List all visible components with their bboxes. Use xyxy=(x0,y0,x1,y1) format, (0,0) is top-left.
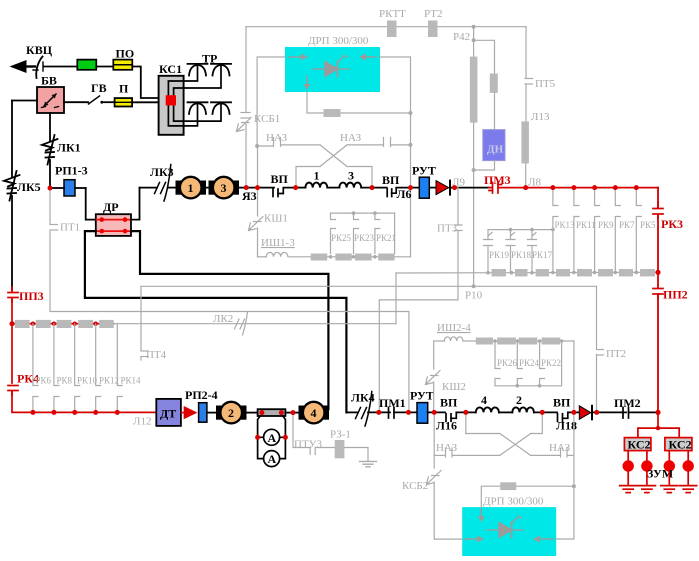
node PM1 right xyxy=(406,410,410,414)
switch LK3 xyxy=(155,165,171,202)
wire left vertical (black part) xyxy=(11,101,13,178)
resistor row blocks xyxy=(492,269,655,276)
svg-text:КС2: КС2 xyxy=(628,438,651,452)
inductor field 3 xyxy=(339,183,361,188)
svg-text:ЛК4: ЛК4 xyxy=(351,391,375,405)
svg-text:БВ: БВ xyxy=(41,74,57,88)
svg-text:А: А xyxy=(268,431,277,445)
contact PM1 xyxy=(389,408,418,419)
svg-text:ПМ2: ПМ2 xyxy=(614,396,641,410)
wire DR bottom winding left path to LK4 branch xyxy=(85,231,347,412)
wire green fuse to PO fuse xyxy=(96,66,113,68)
svg-text:ЛК5: ЛК5 xyxy=(17,180,41,194)
contact RK3 (red) xyxy=(653,202,663,218)
svg-text:ПП2: ПП2 xyxy=(663,288,688,302)
node PM1 left xyxy=(377,410,381,414)
arrow DRP2 left (in) xyxy=(464,536,484,543)
wire PT4 branch vertical xyxy=(140,286,142,350)
contact PM3 (red) xyxy=(489,183,502,194)
svg-text:РК22: РК22 xyxy=(541,358,561,368)
node NAZ right xyxy=(409,143,413,147)
svg-text:КШ1: КШ1 xyxy=(264,213,288,225)
wire DRP2 snubber xyxy=(481,486,574,507)
node R42 lower junction xyxy=(472,38,476,42)
switch GV xyxy=(89,96,104,104)
wire DRP1 right lead xyxy=(380,57,411,113)
wire ISh2-4 row left xyxy=(434,340,445,342)
relay coil RKTT xyxy=(387,21,397,38)
svg-text:Я3: Я3 xyxy=(242,189,257,203)
svg-text:Р42: Р42 xyxy=(453,31,470,43)
svg-text:РК21: РК21 xyxy=(376,233,396,243)
wire LK4 segment xyxy=(346,411,357,413)
node bottom line dots (red) xyxy=(31,410,120,414)
resistor ISh row blocks xyxy=(311,254,395,261)
SEC6 middle gray web xyxy=(50,146,626,412)
wire PT5 branch xyxy=(525,27,527,78)
wire PP3 down (red) xyxy=(11,298,13,383)
contact PP2 (red) xyxy=(653,289,663,299)
wire between field coils xyxy=(499,411,512,413)
shunt (ammeter) xyxy=(258,409,286,416)
node snubber2 junction xyxy=(572,484,576,488)
wire R42 branch vertical xyxy=(473,27,475,57)
contact RK24 xyxy=(517,341,522,386)
svg-text:НАЗ: НАЗ xyxy=(340,132,362,144)
wire RK25 bus xyxy=(331,212,395,214)
switch LK2 xyxy=(235,312,248,336)
svg-text:2: 2 xyxy=(516,393,522,407)
contact RK17 xyxy=(528,230,537,273)
svg-text:2: 2 xyxy=(228,406,234,420)
svg-text:КС1: КС1 xyxy=(159,62,182,76)
node RK13 tap xyxy=(551,185,555,189)
wire top gray bus xyxy=(246,26,526,28)
wire shunt to motor4 xyxy=(285,412,299,414)
ammeter A2 xyxy=(264,451,280,467)
resistor ladder R4 xyxy=(78,320,93,328)
contact NAZ lower-left xyxy=(434,448,500,457)
node Ya3 xyxy=(244,185,248,189)
svg-text:РК10: РК10 xyxy=(77,376,98,386)
switch LK4 xyxy=(356,392,372,427)
relay RP1-3 xyxy=(64,180,75,196)
svg-text:ЛК1: ЛК1 xyxy=(57,141,81,155)
contactor KC2 (left) xyxy=(624,438,651,452)
relay RUT (upper) xyxy=(419,177,429,198)
svg-text:1: 1 xyxy=(314,169,320,183)
svg-text:РК11: РК11 xyxy=(576,220,596,230)
svg-text:ПТ4: ПТ4 xyxy=(146,349,167,361)
wire riser row273 to LK2 row xyxy=(395,273,397,324)
svg-text:РП2-4: РП2-4 xyxy=(185,388,218,402)
svg-text:РК5: РК5 xyxy=(640,220,656,230)
wire between field coils xyxy=(327,187,339,189)
inductor ISh2-4 xyxy=(444,337,463,341)
wire RZ-1 to ground xyxy=(344,448,368,462)
svg-text:Л8: Л8 xyxy=(528,177,541,189)
node field right xyxy=(370,185,374,189)
wire DN bottom to junction xyxy=(474,161,495,170)
fuse PO xyxy=(113,60,132,70)
node RK7 tap xyxy=(613,185,617,189)
SEC1 top-left power xyxy=(10,43,232,135)
wire circle 4 to ground (red) xyxy=(687,472,689,486)
arrow DRP2 right (in) xyxy=(533,536,553,543)
svg-text:ИШ1-3: ИШ1-3 xyxy=(261,237,295,249)
wire L13 to main line xyxy=(525,163,527,187)
svg-text:РТ2: РТ2 xyxy=(424,8,442,20)
motor 3 xyxy=(209,177,240,199)
motor 4 xyxy=(299,402,330,424)
wire RUT to VP L16 xyxy=(428,411,445,413)
inductor field 4 xyxy=(476,407,499,412)
svg-text:ПТ5: ПТ5 xyxy=(535,78,556,90)
wire ISh2 row right drop xyxy=(573,341,575,486)
relay RUT (lower) xyxy=(417,403,428,424)
wire LK1 to RP1-3 node xyxy=(49,160,51,188)
node snubber junction xyxy=(409,111,413,115)
svg-text:ПП3: ПП3 xyxy=(19,289,44,303)
wire reverser lower-left to field xyxy=(296,167,320,188)
wire node to RP1-3 xyxy=(50,187,64,189)
svg-text:ПТ2: ПТ2 xyxy=(606,348,626,360)
resistor DRP1 snubber xyxy=(324,109,341,117)
svg-text:ДРП 300/300: ДРП 300/300 xyxy=(308,35,369,47)
contact NAZ upper-left xyxy=(257,138,320,147)
node ladder corner xyxy=(10,322,14,326)
wire reverser cross upper-left xyxy=(320,145,347,167)
wire KSB1 to NAZ bus xyxy=(245,124,247,188)
svg-text:Л12: Л12 xyxy=(133,416,151,428)
wire ISh2-4 row xyxy=(464,340,574,342)
svg-text:4: 4 xyxy=(311,406,317,420)
heater ZUM circle 4 xyxy=(683,460,694,471)
contact RK18 xyxy=(506,230,515,273)
node RK25 bus dots xyxy=(352,211,377,215)
fuse P xyxy=(115,98,133,106)
svg-text:ПМ1: ПМ1 xyxy=(379,396,406,410)
svg-text:П: П xyxy=(119,82,129,96)
diode (black) lower xyxy=(579,406,592,420)
breaker BV xyxy=(37,87,64,113)
heater ZUM circle 3 xyxy=(664,460,675,471)
svg-text:ВП: ВП xyxy=(553,396,571,410)
wire BV bottom to LK1 xyxy=(49,113,51,141)
svg-text:КС2: КС2 xyxy=(669,438,692,452)
overlay junction dots xyxy=(10,185,661,440)
wire reverser cross upper-right xyxy=(320,145,347,167)
svg-text:Л13: Л13 xyxy=(531,111,550,123)
wire field3 to VP L6 xyxy=(361,187,387,189)
wire KC2 right legs (red) xyxy=(669,451,688,461)
ammeter A1 xyxy=(264,429,280,445)
SEC9 KC2 zum xyxy=(620,412,697,492)
switch LK1 xyxy=(42,135,58,165)
node RK9 tap xyxy=(592,185,596,189)
svg-text:ПО: ПО xyxy=(116,47,135,61)
svg-text:ЛК3: ЛК3 xyxy=(150,165,174,179)
wire LK2 row xyxy=(114,323,396,325)
wire diode to PM2 xyxy=(592,411,626,413)
contact NAZ upper-right xyxy=(347,138,411,147)
diode (red) upper xyxy=(436,181,450,195)
node ISh2 row dots xyxy=(493,339,563,343)
svg-text:Л16: Л16 xyxy=(436,419,457,433)
wire reverser2 upper-right drop xyxy=(531,412,543,433)
svg-text:РК13: РК13 xyxy=(555,220,576,230)
node NAZ left xyxy=(255,144,259,148)
node diode left xyxy=(572,410,576,414)
wire LK4 to PM1 xyxy=(368,411,390,413)
wire below tall resistor xyxy=(473,123,475,287)
wire R10 row xyxy=(141,285,597,287)
svg-text:РК23: РК23 xyxy=(354,233,375,243)
switch KSB2 xyxy=(427,471,442,485)
svg-text:3: 3 xyxy=(348,169,354,183)
wire motor2 to shunt xyxy=(246,412,258,414)
arrow DT output (red) xyxy=(182,407,196,418)
thyristor DRP1 symbol xyxy=(313,56,349,77)
wire RK4 to bottom corner (red) xyxy=(12,391,156,412)
resistor ladder R5 xyxy=(99,320,114,328)
node junction 170 xyxy=(472,168,476,172)
wire red right vertical xyxy=(657,188,659,208)
switch KSh2 xyxy=(426,371,441,385)
pantograph TR4 (bottom-right) xyxy=(211,102,231,114)
contact PP3 (red) xyxy=(8,287,18,302)
winding DR bottom xyxy=(97,229,131,234)
heater ZUM circle 2 xyxy=(641,460,652,471)
svg-text:РУТ: РУТ xyxy=(410,389,434,403)
svg-text:РП1-3: РП1-3 xyxy=(55,164,88,178)
pantograph TR3 (bottom-left) xyxy=(188,102,208,114)
wire PT5 to L13 xyxy=(525,84,527,121)
svg-text:ЛК2: ЛК2 xyxy=(213,313,233,325)
wire DRP2 right lead xyxy=(556,486,574,539)
wire reverser2 upper-left drop xyxy=(466,412,500,433)
svg-text:КВЦ: КВЦ xyxy=(26,43,53,57)
node KC2 bracket xyxy=(656,426,660,430)
wire circle 1 to ground (red) xyxy=(627,472,629,486)
wire motor3 to VP xyxy=(239,187,275,189)
wire KSB1 branch xyxy=(245,27,247,112)
contact PT5 xyxy=(525,79,533,85)
contact RK23 xyxy=(354,213,359,253)
node RK11 tap xyxy=(572,185,576,189)
wire KSh2 branch xyxy=(433,341,435,369)
node RP1-3 junction xyxy=(48,186,52,190)
wire KC2 feeder (red) xyxy=(638,412,679,437)
svg-text:РК25: РК25 xyxy=(331,233,352,243)
wire RK3 to PP2 (red) xyxy=(657,215,659,288)
wire PTU3 branch xyxy=(293,413,335,448)
wire PT1 branch xyxy=(50,188,409,412)
wire circle 3 to ground (red) xyxy=(668,472,670,486)
node ladder dots xyxy=(31,322,98,326)
contact RK5 column xyxy=(636,188,641,273)
node RK19 bus dots xyxy=(509,228,555,232)
svg-text:ДН: ДН xyxy=(487,144,504,156)
inductor field 1 xyxy=(305,183,327,188)
node RK26 bus dots xyxy=(516,384,542,388)
svg-text:ПТ1: ПТ1 xyxy=(60,222,80,234)
wire KSh1 to ISh1-3 xyxy=(257,228,259,257)
svg-text:РУТ: РУТ xyxy=(412,164,436,178)
wire jog to DN branch xyxy=(474,40,495,73)
wire KSB2 branch xyxy=(433,412,435,468)
contact RK4 (red) xyxy=(8,386,18,396)
wire reverser2 cross A xyxy=(500,434,531,456)
node KVC arrow (to pantograph) xyxy=(10,60,36,73)
wire BV right to GV xyxy=(64,101,88,103)
transformer KS1 body xyxy=(159,76,184,135)
contact RK7 column xyxy=(615,188,620,273)
wire GV to P fuse xyxy=(103,101,115,103)
node field2 right xyxy=(540,410,544,414)
svg-text:РК9: РК9 xyxy=(598,220,614,230)
svg-text:НАЗ: НАЗ xyxy=(436,442,458,454)
svg-text:РЗ-1: РЗ-1 xyxy=(330,429,351,441)
resistor R42 (tall) xyxy=(470,57,478,123)
node L13 tap xyxy=(524,185,528,189)
wire RP1-3 to DR top winding xyxy=(86,188,96,220)
contact PTU3 xyxy=(310,448,315,455)
svg-text:РКТТ: РКТТ xyxy=(379,8,406,20)
svg-text:РК3: РК3 xyxy=(661,217,683,231)
winding DR top xyxy=(97,217,131,222)
svg-text:ДР: ДР xyxy=(103,200,119,214)
wire RK19 bus xyxy=(488,229,553,231)
voltmeter DN xyxy=(483,130,505,161)
node resistor row right xyxy=(656,270,661,275)
resistor L13 xyxy=(521,121,529,163)
wire PT2 branch xyxy=(596,286,598,412)
wire diode to PM3 xyxy=(450,187,489,189)
winding loop A (to TR top-left) xyxy=(168,65,197,95)
contact VP L6 xyxy=(387,188,419,197)
node R10 xyxy=(472,284,476,288)
svg-text:КСБ2: КСБ2 xyxy=(402,480,428,492)
wire RK26 bus xyxy=(495,341,562,386)
svg-text:РК26: РК26 xyxy=(497,358,518,368)
node row dots xyxy=(486,271,638,275)
winding loop C (to TR bottom-left) xyxy=(168,104,197,126)
wire RK25 bus right drop xyxy=(394,213,396,253)
pantograph TR2 (top-right) xyxy=(211,64,231,76)
svg-text:РК6: РК6 xyxy=(36,376,52,386)
heater ZUM circle 1 xyxy=(623,460,634,471)
svg-text:КШ2: КШ2 xyxy=(442,381,466,393)
contact NAZ lower-right xyxy=(531,448,574,457)
wire motor1 to motor3 xyxy=(206,187,210,189)
svg-text:РК17: РК17 xyxy=(532,250,553,260)
svg-text:ВП: ВП xyxy=(440,396,458,410)
svg-text:РК18: РК18 xyxy=(511,250,532,260)
resistor DN branch xyxy=(490,74,498,93)
wire to inductor 1 xyxy=(296,187,306,189)
svg-text:КСБ1: КСБ1 xyxy=(254,113,280,125)
svg-text:РК8: РК8 xyxy=(57,376,73,386)
reactor DR box xyxy=(96,214,131,236)
wire ISh row xyxy=(288,256,410,258)
wire to inductor xyxy=(258,256,267,258)
svg-text:РК19: РК19 xyxy=(489,250,510,260)
ground 2 (red) xyxy=(638,486,655,493)
wire circle 2 to ground (red) xyxy=(646,472,648,486)
SEC7 bottom motor line xyxy=(216,389,660,467)
svg-text:ВП: ВП xyxy=(382,173,400,187)
wire resistor to DN xyxy=(494,93,496,130)
wire main line to LK3 xyxy=(140,187,158,189)
contact RK19 xyxy=(484,230,493,273)
wire ammeter loop xyxy=(258,416,286,459)
winding loop B (to TR top-right) xyxy=(174,65,221,95)
contact RK14 column xyxy=(117,324,122,413)
contact PT2 xyxy=(597,350,604,356)
arrester DRP2 box xyxy=(462,507,556,556)
arrow DRP1 right (in) xyxy=(359,54,376,61)
contact RK21 xyxy=(375,213,380,253)
wire LK3 to motor1 xyxy=(168,187,176,189)
wire P to KS1 xyxy=(132,101,166,103)
switch LK5 xyxy=(4,171,20,201)
svg-text:3: 3 xyxy=(221,181,227,195)
contact VP L18 xyxy=(558,412,580,421)
node KSh2 tap xyxy=(432,410,436,414)
arrow DRP1 bottom (down) xyxy=(304,76,311,90)
svg-text:ПТ3: ПТ3 xyxy=(437,223,458,235)
SEC4 DR routing xyxy=(85,188,347,413)
wire RP2-4 to motor 2 xyxy=(207,412,220,414)
switch KSB1 xyxy=(237,113,252,132)
contact RK11 column xyxy=(574,188,579,273)
contact PM2 xyxy=(623,408,658,419)
motor 2 xyxy=(216,402,247,424)
contact RK12 column xyxy=(96,324,101,413)
wire KSh1 branch xyxy=(257,146,259,216)
SEC2 top gray network xyxy=(237,8,556,286)
svg-text:1: 1 xyxy=(188,181,194,195)
relay coil RT2 xyxy=(428,21,438,38)
inductor field 2 xyxy=(512,407,534,412)
sensor DT box xyxy=(156,399,181,426)
svg-text:А: А xyxy=(268,452,277,466)
SEC3 left column xyxy=(4,101,220,428)
wire DRP1 left lead xyxy=(257,57,285,146)
contactor KS1 switching element (red) xyxy=(166,95,176,105)
arrester DRP1 box xyxy=(285,47,380,92)
wire resistor row (right) xyxy=(396,271,658,274)
svg-text:РК12: РК12 xyxy=(99,376,119,386)
arrow DRP2 top (down) xyxy=(478,509,485,522)
resistor ladder R2 xyxy=(36,320,51,328)
contact PT4 xyxy=(141,351,148,360)
node L9 xyxy=(452,185,456,189)
thyristor DRP2 symbol xyxy=(487,517,523,538)
ground 3 (red) xyxy=(661,486,678,493)
fuse (green) xyxy=(77,60,96,70)
node dots (red) overlay xyxy=(10,185,661,440)
contact RK13 column xyxy=(553,188,558,273)
ground (gray) xyxy=(360,461,377,466)
relay RP2-4 xyxy=(199,403,207,423)
wire field2 to VP L18 xyxy=(534,411,557,413)
contact RK9 column xyxy=(595,188,600,273)
resistor ladder R1 xyxy=(15,320,30,328)
wire BV left xyxy=(12,100,37,102)
wire KVC to PO xyxy=(44,66,78,68)
